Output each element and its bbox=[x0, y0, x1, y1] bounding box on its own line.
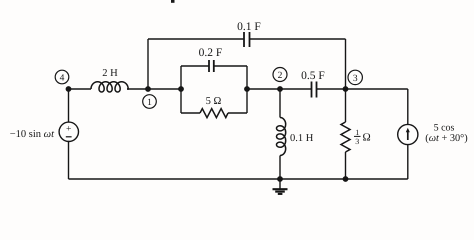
junction at bottom rail / ground bbox=[277, 176, 283, 182]
wire top horizontal right segment bbox=[250, 38, 346, 40]
box left edge bbox=[180, 66, 182, 113]
resistor R 5 ohm (zigzag) bbox=[200, 109, 228, 118]
value label 1/3 ohm bbox=[354, 128, 371, 146]
wire top horizontal left segment bbox=[148, 38, 244, 40]
node 2 circle bbox=[273, 68, 287, 82]
svg-text:3: 3 bbox=[355, 137, 359, 146]
capacitor C 0.2 F bbox=[209, 60, 214, 72]
svg-text:4: 4 bbox=[60, 73, 65, 83]
junction at node 4 bbox=[66, 86, 72, 92]
wire main left: node4 to box bbox=[69, 88, 92, 90]
junction at node 3 bbox=[343, 86, 349, 92]
wire 0.1H coil to bottom rail bbox=[279, 156, 281, 180]
inductor 0.1 H (vertical coil) bbox=[276, 118, 285, 156]
junction at bottom rail / resistor bbox=[343, 176, 349, 182]
svg-text:2: 2 bbox=[278, 71, 283, 81]
svg-text:+: + bbox=[66, 124, 71, 134]
junction at box right bbox=[244, 86, 250, 92]
box right edge bbox=[246, 66, 248, 113]
junction at box left bbox=[178, 86, 184, 92]
svg-text:Ω: Ω bbox=[363, 132, 371, 144]
junction at node 2 bbox=[277, 86, 283, 92]
svg-text:1: 1 bbox=[147, 98, 152, 108]
junction at node 1 riser bbox=[145, 86, 151, 92]
svg-text:0.5 F: 0.5 F bbox=[301, 70, 325, 82]
box bottom edge up to resistor bbox=[181, 112, 200, 114]
svg-text:5 Ω: 5 Ω bbox=[206, 96, 222, 107]
cropped page-header mark at top edge bbox=[171, 0, 175, 3]
box top edge with cap gap bbox=[181, 65, 209, 67]
parallel box: C 0.2F over R 5ohm bbox=[181, 66, 247, 113]
wire: top link from node1 riser to node3 riser bbox=[69, 39, 408, 179]
wire bottom rail bbox=[69, 178, 408, 180]
node 1 circle bbox=[143, 95, 157, 109]
wire 1/3 ohm resistor to bottom rail bbox=[345, 152, 347, 179]
capacitor 0.5 F bbox=[312, 82, 317, 98]
inductor L 2 H (horizontal coil) bbox=[91, 82, 128, 92]
wire left branch: node4 down to source bbox=[68, 89, 70, 122]
arrow inside current source bbox=[407, 130, 409, 140]
node 4 circle bbox=[55, 70, 69, 84]
svg-text:0.1 H: 0.1 H bbox=[290, 133, 314, 144]
wire riser at node 1 bbox=[147, 39, 149, 89]
wire main right: 0.5F cap to right corner bbox=[317, 88, 408, 90]
svg-text:5 cos: 5 cos bbox=[434, 123, 455, 134]
svg-text:1: 1 bbox=[355, 128, 359, 137]
wire node3 branch down to 1/3 ohm resistor bbox=[345, 89, 347, 122]
wire left branch: source to bottom bbox=[68, 141, 70, 179]
wire riser at node 3 bbox=[345, 39, 347, 89]
resistor 1/3 ohm (vertical zigzag) bbox=[341, 122, 350, 152]
wire main mid: box to 0.5F cap bbox=[247, 88, 312, 90]
svg-text:0.1 F: 0.1 F bbox=[237, 21, 261, 33]
current source 5 cos(wt+30) bbox=[398, 124, 418, 144]
svg-text:2 H: 2 H bbox=[102, 68, 118, 79]
ground symbol bbox=[273, 179, 288, 194]
wire right branch: current source to bottom bbox=[407, 145, 409, 179]
voltage source -10 sin wt bbox=[59, 122, 78, 141]
svg-text:−10 sin ωt: −10 sin ωt bbox=[10, 129, 55, 140]
svg-text:0.2 F: 0.2 F bbox=[199, 47, 223, 59]
capacitor 0.1 F (top link) bbox=[244, 32, 250, 47]
svg-text:3: 3 bbox=[353, 74, 358, 84]
wire right branch: corner down to current source bbox=[407, 89, 409, 124]
svg-text:(ωt + 30°): (ωt + 30°) bbox=[425, 133, 467, 144]
wire node2 branch down to 0.1H coil bbox=[279, 89, 281, 118]
node 3 circle bbox=[348, 70, 362, 84]
